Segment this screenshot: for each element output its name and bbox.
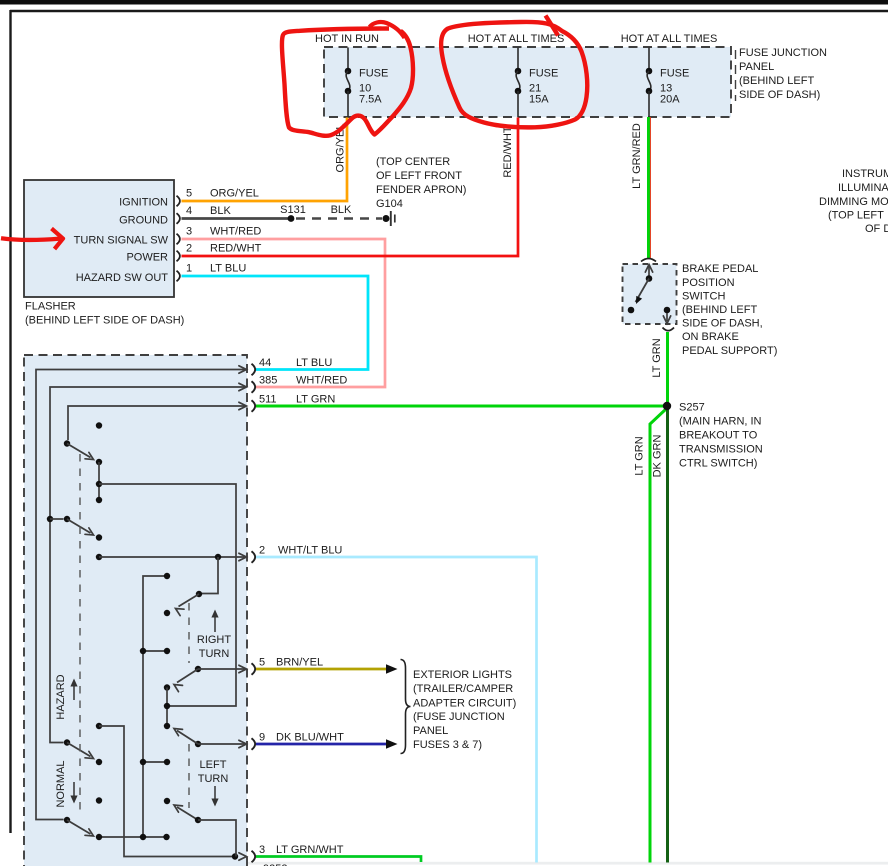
page border left edge <box>9 10 11 833</box>
svg-text:LT GRN/RED: LT GRN/RED <box>631 123 643 189</box>
svg-text:PANEL: PANEL <box>413 725 448 737</box>
svg-text:(BEHIND LEFT SIDE OF DASH): (BEHIND LEFT SIDE OF DASH) <box>25 315 184 327</box>
svg-text:FENDER APRON): FENDER APRON) <box>376 184 466 196</box>
svg-text:LT GRN: LT GRN <box>651 338 663 377</box>
svg-text:RED/WHT: RED/WHT <box>210 243 262 255</box>
bottom contact rail <box>99 836 167 838</box>
svg-text:9: 9 <box>259 732 265 744</box>
right turn contact rail <box>164 684 170 690</box>
label bracket dashes right of panel <box>735 50 737 101</box>
contact rail dots <box>96 459 102 465</box>
branch to hazard pivot <box>50 518 64 520</box>
svg-text:BRN/YEL: BRN/YEL <box>276 657 323 669</box>
svg-text:GROUND: GROUND <box>119 215 168 227</box>
svg-text:DK BLU/WHT: DK BLU/WHT <box>276 732 344 744</box>
hazard pivot lower arm <box>64 817 70 823</box>
svg-text:EXTERIOR LIGHTS: EXTERIOR LIGHTS <box>413 669 512 681</box>
svg-text:DK GRN: DK GRN <box>652 435 664 478</box>
svg-text:CTRL SWITCH): CTRL SWITCH) <box>679 458 757 470</box>
red scribble circle around fuse 10 <box>282 29 413 136</box>
svg-text:DIMMING MO: DIMMING MO <box>819 196 888 208</box>
switch pin 5 connector + label BRN/YEL <box>252 657 324 675</box>
svg-text:POSITION: POSITION <box>682 277 735 289</box>
svg-text:LT GRN: LT GRN <box>296 394 335 406</box>
svg-text:LT BLU: LT BLU <box>210 263 246 275</box>
svg-text:5: 5 <box>259 657 265 669</box>
svg-text:BREAKOUT TO: BREAKOUT TO <box>679 430 758 442</box>
hazard pivot upper arm <box>64 739 70 745</box>
svg-text:FUSE JUNCTION: FUSE JUNCTION <box>739 47 827 59</box>
switch pin 44 connector + label LT BLU <box>252 357 333 375</box>
hazard linkage dashed line <box>79 454 81 815</box>
wire LT GRN S257 to bottom <box>650 409 666 863</box>
svg-text:RED/WHT: RED/WHT <box>502 126 514 178</box>
wire LT GRN 511 horizontal to S257 <box>256 405 664 408</box>
instrument illumination dimming module label (cut at edge) <box>819 168 888 235</box>
svg-text:OF D: OF D <box>865 223 888 235</box>
svg-text:FUSES 3 & 7): FUSES 3 & 7) <box>413 739 482 751</box>
svg-text:2: 2 <box>259 545 265 557</box>
turn signal / hazard switch box <box>24 355 247 866</box>
flasher box <box>24 180 174 297</box>
internal wire from pin 385 <box>50 387 246 743</box>
fuse 13 20A <box>646 48 690 118</box>
normal arrow down <box>73 782 75 799</box>
svg-text:44: 44 <box>259 357 271 369</box>
flasher pin 3 connector + label WHT/RED <box>177 226 262 245</box>
switch arm: 385 pivot mid <box>64 516 70 522</box>
flasher pin 1 connector + label LT BLU <box>177 263 247 282</box>
wire WHT/LT BLU pin 2 to bottom <box>256 557 537 863</box>
brace for exterior lights <box>401 660 411 754</box>
svg-text:4: 4 <box>186 205 192 217</box>
svg-text:HAZARD SW OUT: HAZARD SW OUT <box>76 272 169 284</box>
left turn arrow down <box>214 786 216 802</box>
svg-text:S131: S131 <box>280 204 306 216</box>
fuse junction panel box <box>324 47 731 117</box>
crossbar A <box>143 650 167 652</box>
internal wire from pin 511 <box>68 406 246 440</box>
pin 3 feed wire <box>96 723 102 729</box>
wire BLK dashed S131 to G104 <box>296 217 382 220</box>
svg-text:SIDE OF DASH,: SIDE OF DASH, <box>682 318 763 330</box>
svg-text:PEDAL SUPPORT): PEDAL SUPPORT) <box>682 345 777 357</box>
brake pedal position switch box <box>623 264 677 324</box>
brake switch internals <box>628 265 671 324</box>
label (TOP CENTER OF LEFT FRONT FENDER APRON) G104 <box>376 156 466 210</box>
svg-text:WHT/RED: WHT/RED <box>296 375 347 387</box>
wire contact rail to right-turn feed rail <box>99 484 236 706</box>
left turn contact + pivot <box>164 798 170 804</box>
switch arm: 511 pivot <box>64 440 70 446</box>
svg-text:15A: 15A <box>529 94 549 106</box>
fuse junction panel label <box>739 47 827 101</box>
svg-text:LT GRN/WHT: LT GRN/WHT <box>276 844 344 856</box>
junction dot on 385 rail <box>47 516 53 522</box>
S257 label <box>679 402 763 470</box>
svg-text:LT GRN: LT GRN <box>634 436 646 475</box>
internal wire from pin 44 <box>36 370 246 820</box>
flasher label <box>25 301 184 327</box>
ground G104 symbol <box>383 211 395 226</box>
svg-text:IGNITION: IGNITION <box>119 197 168 209</box>
svg-text:FUSE: FUSE <box>359 68 388 80</box>
wire BLK flasher pin4 to S131 <box>182 217 292 220</box>
svg-text:3: 3 <box>259 844 265 856</box>
svg-text:LEFT: LEFT <box>200 759 227 771</box>
switch pin 9 connector + label DK BLU/WHT <box>252 732 345 750</box>
svg-text:1: 1 <box>186 263 192 275</box>
svg-text:BRAKE PEDAL: BRAKE PEDAL <box>682 263 758 275</box>
svg-text:2: 2 <box>186 243 192 255</box>
svg-text:HOT IN RUN: HOT IN RUN <box>315 33 379 45</box>
normal alt contact dot <box>96 797 102 803</box>
right turn arrow up <box>214 614 216 632</box>
wire LT GRN brake switch to S257 <box>666 332 669 404</box>
pin 44 arrowhead <box>239 366 247 373</box>
pin 511 arrowhead <box>239 402 247 409</box>
flasher pin 2 connector + label RED/WHT <box>177 243 262 262</box>
crossbar B <box>143 761 167 763</box>
svg-text:PANEL: PANEL <box>739 61 774 73</box>
switch pin 511 connector + label LT GRN <box>252 394 336 412</box>
svg-text:HAZARD: HAZARD <box>55 674 67 719</box>
svg-text:INSTRUM: INSTRUM <box>842 168 888 180</box>
flasher pin 4 connector + label BLK <box>177 205 232 224</box>
exterior lights label <box>413 669 516 751</box>
wire RED/WHT fuse 21 to flasher pin2 <box>182 118 519 257</box>
svg-text:ILLUMINA: ILLUMINA <box>838 182 888 194</box>
wire LT BLU flasher pin1 to switch pin 44 <box>182 276 369 370</box>
hazard arrow up <box>73 683 75 700</box>
flasher pin name labels <box>74 197 169 285</box>
wire BRN/YEL pin 5 to exterior lights <box>256 668 387 671</box>
svg-text:TRANSMISSION: TRANSMISSION <box>679 444 763 456</box>
svg-text:511: 511 <box>259 394 277 406</box>
brake pedal position switch label <box>682 263 777 357</box>
contact dot (upper alt) <box>96 422 102 428</box>
svg-text:(FUSE JUNCTION: (FUSE JUNCTION <box>413 711 505 723</box>
top black bar <box>0 0 888 5</box>
svg-text:FUSE: FUSE <box>660 68 689 80</box>
pin 5 pivot and wire <box>195 666 201 672</box>
pin 385 arrowhead <box>239 383 247 390</box>
svg-text:WHT/RED: WHT/RED <box>210 226 261 238</box>
right turn linkage dashed line <box>188 603 190 663</box>
svg-text:WHT/LT BLU: WHT/LT BLU <box>278 545 342 557</box>
svg-text:S257: S257 <box>679 402 705 414</box>
svg-text:5: 5 <box>186 188 192 200</box>
svg-text:TURN: TURN <box>199 648 230 660</box>
red scribble circle around fuse 21 <box>546 16 559 36</box>
svg-text:(BEHIND LEFT: (BEHIND LEFT <box>739 75 814 87</box>
svg-text:7.5A: 7.5A <box>359 94 382 106</box>
wire LT GRN/RED fuse 13 down to brake switch <box>647 117 650 258</box>
faint bottom screenshot band <box>248 862 888 865</box>
svg-text:(TOP LEFT: (TOP LEFT <box>828 210 884 222</box>
pin 2 feed row <box>96 554 102 560</box>
splice S257 <box>663 402 671 410</box>
svg-text:TURN SIGNAL SW: TURN SIGNAL SW <box>74 235 169 247</box>
svg-text:ORG/YEL: ORG/YEL <box>210 188 259 200</box>
svg-text:BLK: BLK <box>331 204 352 216</box>
switch pin 2 connector + label WHT/LT BLU <box>252 545 343 563</box>
svg-text:385: 385 <box>259 375 277 387</box>
splice S131 <box>288 215 295 222</box>
brake switch bottom connector arc <box>663 328 675 331</box>
fuse 10 7.5A <box>345 48 389 118</box>
svg-text:(BEHIND LEFT: (BEHIND LEFT <box>682 304 757 316</box>
svg-text:SIDE OF DASH): SIDE OF DASH) <box>739 89 820 101</box>
pin 9 pivot and wire <box>195 741 201 747</box>
svg-text:HOT AT ALL TIMES: HOT AT ALL TIMES <box>468 33 565 45</box>
svg-text:LT BLU: LT BLU <box>296 357 332 369</box>
svg-text:(TRAILER/CAMPER: (TRAILER/CAMPER <box>413 683 513 695</box>
svg-text:FUSE: FUSE <box>529 68 558 80</box>
wire ORG/YEL flasher pin5 to fuse 10 <box>182 118 348 202</box>
wire WHT/RED flasher pin3 to switch pin 385 <box>182 239 386 387</box>
svg-text:ADAPTER CIRCUIT): ADAPTER CIRCUIT) <box>413 698 516 710</box>
switch pin 385 connector + label WHT/RED <box>252 375 348 393</box>
wire DK BLU/WHT pin 9 to exterior lights <box>256 743 387 746</box>
svg-text:NORMAL: NORMAL <box>55 760 67 807</box>
fuse 21 15A <box>515 48 559 118</box>
brake switch top connector arc <box>641 259 656 262</box>
svg-text:BLK: BLK <box>210 205 231 217</box>
svg-text:(TOP CENTER: (TOP CENTER <box>376 156 450 168</box>
central vertical wire <box>143 576 167 837</box>
wire LT GRN/WHT pin 3 <box>256 857 421 863</box>
left turn linkage dashed line <box>188 744 190 808</box>
svg-text:FLASHER: FLASHER <box>25 301 76 313</box>
svg-text:G104: G104 <box>376 198 403 210</box>
wire DK GRN S257 to bottom <box>666 408 669 863</box>
red annotation arrow at flasher <box>1 238 60 240</box>
page border top edge <box>10 10 888 12</box>
svg-text:SWITCH: SWITCH <box>682 291 725 303</box>
svg-text:HOT AT ALL TIMES: HOT AT ALL TIMES <box>621 33 718 45</box>
svg-text:POWER: POWER <box>126 252 168 264</box>
svg-text:3: 3 <box>186 226 192 238</box>
switch pin 3 connector + label LT GRN/WHT <box>252 844 344 862</box>
svg-text:TURN: TURN <box>198 773 229 785</box>
svg-text:20A: 20A <box>660 94 680 106</box>
svg-text:(MAIN HARN, IN: (MAIN HARN, IN <box>679 416 762 428</box>
svg-text:OF LEFT FRONT: OF LEFT FRONT <box>376 170 462 182</box>
svg-text:ON BRAKE: ON BRAKE <box>682 331 739 343</box>
svg-text:RIGHT: RIGHT <box>197 634 232 646</box>
flasher pin 5 connector + label ORG/YEL <box>177 188 259 207</box>
